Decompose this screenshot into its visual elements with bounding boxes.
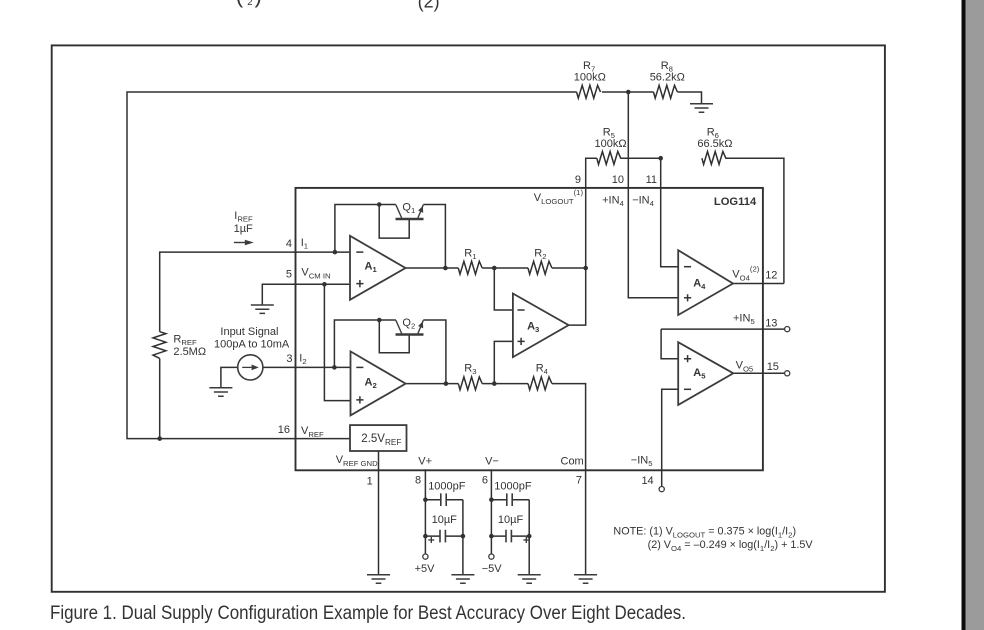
wire R2 right to VLOGOUT node <box>552 267 586 269</box>
junction node A1 inverting input <box>333 250 338 255</box>
svg-text:Input Signal: Input Signal <box>220 326 278 338</box>
svg-text:VCM IN: VCM IN <box>301 267 330 281</box>
junction node pin6-1000pF <box>489 497 494 502</box>
wire A1 output to R1 <box>406 267 459 269</box>
terminal pin 14 <box>659 487 664 492</box>
wire R5 right node down through pin 11 to A4 inverting input <box>661 158 679 267</box>
resistor R7 <box>577 85 601 98</box>
wire VCM IN node down to A2 non-inverting input <box>324 284 350 400</box>
resistor R8 <box>654 85 678 98</box>
op-amp A2 input polarity signs <box>356 367 363 403</box>
svg-text:3: 3 <box>286 353 292 365</box>
equation number (2) top clipped <box>418 0 440 12</box>
junction node V- rail-10uF <box>527 534 532 539</box>
op-amp chip LOG114 outline U1 <box>296 188 763 470</box>
svg-text:I1: I1 <box>301 237 308 251</box>
capacitor C1 1000pF plates (V+) <box>441 493 446 506</box>
wire Q1 base tap <box>379 205 409 239</box>
wire 1000pF branch at pin 6 <box>491 499 529 501</box>
ground at VCM IN <box>251 305 274 313</box>
wire Q2 base tap <box>379 320 409 353</box>
figure outer border frame <box>52 45 885 591</box>
wire R1 to R2 <box>482 267 528 269</box>
wire A2 feedback to Q2 collector <box>334 320 396 367</box>
wire 1000pF branch at pin 8 <box>425 499 463 501</box>
svg-text:I2: I2 <box>299 352 306 366</box>
capacitor C3 1000pF plates (V-) <box>507 493 512 506</box>
wire A4 output through pin 12 <box>733 283 784 285</box>
svg-text:6: 6 <box>482 474 488 486</box>
junction node VCM IN <box>322 282 327 287</box>
svg-text:(: ( <box>236 0 244 8</box>
svg-text:V+: V+ <box>418 456 432 468</box>
ground at pin 1 VREF GND <box>367 575 390 583</box>
op-amp A3 <box>513 294 569 358</box>
op-amp A3 input polarity signs <box>518 310 525 345</box>
wire A2 output to R3 <box>406 383 459 385</box>
wire pin 6 V- down to -5V terminal <box>490 469 492 554</box>
voltage reference box 2.5VREF <box>350 425 407 451</box>
wire +IN5 down to A5 non-inverting input <box>661 329 678 359</box>
wire A1 feedback to Q1 collector <box>335 205 396 253</box>
junction node V+ rail-10uF <box>461 534 466 539</box>
resistor RREF vertical <box>153 332 166 359</box>
svg-text:−IN4: −IN4 <box>632 194 654 208</box>
svg-text:IREF: IREF <box>234 210 253 224</box>
svg-text:16: 16 <box>278 424 290 436</box>
wire R7-R8 junction to R8 <box>602 91 654 93</box>
wire R8 right to ground <box>678 92 702 104</box>
polarity + of 10uF (V-) <box>523 537 529 543</box>
svg-text:VLOGOUT(1): VLOGOUT(1) <box>534 188 584 206</box>
svg-text:VO4(2): VO4(2) <box>732 265 759 283</box>
wire pin 13 +IN5 row to terminal <box>661 328 785 330</box>
wire VCM IN ground stem and pin 5 row to A1 non-inverting input <box>262 284 350 305</box>
svg-text:10µF: 10µF <box>432 514 458 526</box>
junction node RREF-VREF row <box>157 436 162 441</box>
wire A3 output up through pin 9 to R5 <box>569 158 597 325</box>
junction node A1 output <box>443 266 448 271</box>
svg-text:1000pF: 1000pF <box>494 481 532 493</box>
svg-text:+IN5: +IN5 <box>733 313 755 327</box>
IREF current direction arrow <box>234 240 254 245</box>
svg-text:13: 13 <box>765 317 777 329</box>
wire RREF bottom to VREF row <box>159 358 161 438</box>
junction node R7-R8 <box>626 90 631 95</box>
wire pin 16 row to 2.5VREF box <box>296 438 351 440</box>
figure caption <box>50 602 686 625</box>
svg-text:7: 7 <box>576 474 582 486</box>
svg-text:15: 15 <box>767 361 779 373</box>
svg-text:2.5MΩ: 2.5MΩ <box>173 346 206 358</box>
wire A5 output through pin 15 to terminal <box>733 372 784 374</box>
svg-text:10µF: 10µF <box>498 514 524 526</box>
wire R5 left to R5 <box>620 157 661 159</box>
svg-text:4: 4 <box>286 238 292 250</box>
wire Q1 emitter to A1 output node <box>423 205 445 269</box>
svg-text:1: 1 <box>367 475 373 487</box>
svg-text:R3: R3 <box>464 363 476 377</box>
wire R3-R4 node up to A3 non-inverting input <box>494 341 513 383</box>
terminal -5V <box>489 554 494 559</box>
svg-text:100kΩ: 100kΩ <box>595 138 627 150</box>
op-amp A1 input polarity signs <box>356 252 363 287</box>
svg-text:+5V: +5V <box>415 563 436 575</box>
resistor R2 <box>528 261 552 274</box>
ground at V+ bypass rail <box>451 575 474 583</box>
wire 2.5VREF output down through pin 1 to ground <box>378 451 380 575</box>
junction node R1-R2 <box>492 266 497 271</box>
svg-text:2: 2 <box>247 0 252 8</box>
wire A5 inverting input down through pin 14 to terminal <box>662 389 679 486</box>
op-amp A1 <box>350 236 406 300</box>
svg-text:): ) <box>255 0 262 8</box>
wire R5-R6 row right of R6 down to pin 12 node <box>725 158 784 283</box>
svg-text:14: 14 <box>641 475 653 487</box>
wire Q2 emitter to A2 output node <box>423 320 446 384</box>
current source input signal <box>238 355 263 380</box>
ground at pin 7 Com <box>574 575 597 583</box>
ground at input signal source <box>209 388 232 396</box>
svg-text:LOG114: LOG114 <box>714 196 757 208</box>
svg-text:R2: R2 <box>534 248 546 262</box>
wire R4 right down through pin 7 Com to ground <box>552 384 586 575</box>
wire R7-R8 junction down through pin 10 to A4 non-inverting input <box>628 92 678 298</box>
svg-text:10: 10 <box>612 174 624 186</box>
op-amp A5 input polarity signs <box>684 355 691 389</box>
transistor Q1 <box>396 205 424 219</box>
op-amp A4 <box>678 250 733 315</box>
junction node A2 inverting input <box>332 365 337 370</box>
svg-text:100kΩ: 100kΩ <box>574 72 606 84</box>
svg-text:12: 12 <box>765 270 777 282</box>
svg-text:Com: Com <box>561 456 584 468</box>
svg-text:1000pF: 1000pF <box>428 481 466 493</box>
equation fragment top-left (I1/I2) bottom clipped <box>236 0 262 8</box>
junction node R3-R4 <box>492 381 497 386</box>
svg-text:VREF GND: VREF GND <box>336 454 378 468</box>
polarity + of 10uF (V+) <box>428 537 434 543</box>
svg-text:−5V: −5V <box>482 563 503 575</box>
resistor R3 <box>458 377 482 390</box>
svg-text:V−: V− <box>485 456 499 468</box>
terminal pin 13 <box>785 327 790 332</box>
svg-text:(2) VO4 = –0.249 × log(I1/I2): (2) VO4 = –0.249 × log(I1/I2) + 1.5V <box>648 539 814 553</box>
svg-text:9: 9 <box>575 174 581 186</box>
svg-text:(2): (2) <box>418 0 440 12</box>
junction node Q1 base-collector <box>377 202 382 207</box>
terminal pin 15 <box>785 371 790 376</box>
transistor Q2 <box>396 320 424 334</box>
wire pin 8 V+ down to +5V terminal <box>424 469 426 554</box>
svg-text:Q1: Q1 <box>402 202 415 216</box>
wire 10uF branch at pin 8 <box>425 535 463 537</box>
resistor R5 <box>597 152 621 165</box>
svg-text:100pA to 10mA: 100pA to 10mA <box>214 339 290 351</box>
svg-text:VREF: VREF <box>301 425 324 439</box>
wire pin 4 row to RREF top <box>160 252 296 332</box>
capacitor C2 10uF plates (V+) <box>440 530 445 543</box>
wire current source to pin 3 I2 to A2 inverting input <box>263 366 351 368</box>
junction node pin8-1000pF <box>423 497 428 502</box>
junction node pin8-10uF <box>423 534 428 539</box>
resistor R6 <box>702 152 726 165</box>
wire R3 to R4 <box>482 383 528 385</box>
resistor R1 <box>458 261 482 274</box>
wire current source left to ground <box>221 367 238 387</box>
svg-text:66.5kΩ: 66.5kΩ <box>697 138 732 150</box>
wire R1-R2 node down to A3 inverting input <box>494 268 513 310</box>
svg-text:+IN4: +IN4 <box>602 194 624 208</box>
svg-text:8: 8 <box>415 474 421 486</box>
ground at V- bypass rail <box>518 575 541 583</box>
svg-text:1µF: 1µF <box>234 223 253 235</box>
op-amp A5 <box>678 342 733 405</box>
svg-text:R1: R1 <box>464 248 476 262</box>
capacitor C4 10uF plates (V-) <box>506 530 511 543</box>
wire bypass ground rail V- <box>528 500 530 575</box>
wire pin 4 I1 to A1 inverting input <box>296 251 351 253</box>
junction node Q2 base-collector <box>377 318 382 323</box>
svg-text:−IN5: −IN5 <box>631 454 653 468</box>
svg-text:NOTE: (1) VLOGOUT = 0.375 × lo: NOTE: (1) VLOGOUT = 0.375 × log(I1/I2) <box>613 525 796 539</box>
junction node R5-R6 pin 11 <box>658 156 663 161</box>
wire VREF feedback loop: R7 left, down left side, to pin 16 row <box>127 92 577 439</box>
junction node VLOGOUT-R2 <box>583 266 588 271</box>
svg-text:VO5: VO5 <box>736 359 754 373</box>
svg-text:Q2: Q2 <box>402 317 415 331</box>
op-amp A2 <box>351 351 406 415</box>
page edge gray margin <box>966 0 984 630</box>
page edge black rule <box>962 0 966 630</box>
svg-text:R4: R4 <box>536 363 549 377</box>
terminal +5V <box>423 554 428 559</box>
svg-text:11: 11 <box>646 174 657 186</box>
op-amp A4 input polarity signs <box>684 267 691 302</box>
svg-text:56.2kΩ: 56.2kΩ <box>650 72 685 84</box>
resistor R4 <box>528 377 552 390</box>
wire bypass ground rail V+ <box>462 500 464 575</box>
svg-text:5: 5 <box>286 269 292 281</box>
svg-text:RREF: RREF <box>173 334 197 348</box>
junction node pin6-10uF <box>489 534 494 539</box>
ground at R8 <box>690 104 713 112</box>
junction node A2 output <box>444 381 449 386</box>
wire 10uF branch at pin 6 <box>491 535 529 537</box>
